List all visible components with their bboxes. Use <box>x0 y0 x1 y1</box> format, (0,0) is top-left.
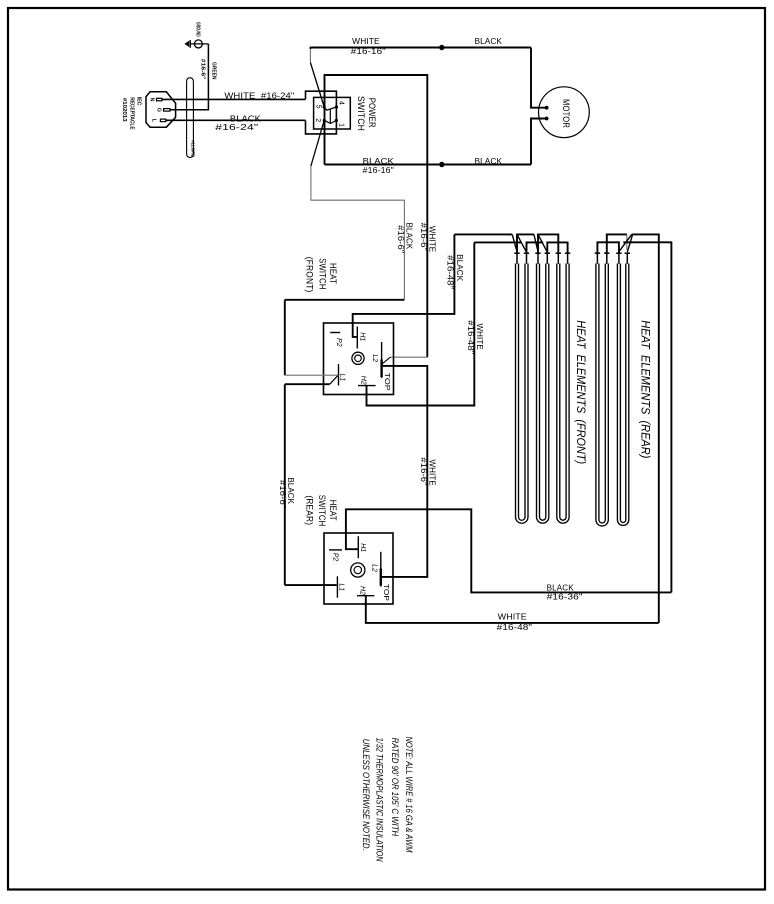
wire to pin 5 <box>310 47 324 107</box>
label heat switch (front) <box>305 257 338 293</box>
wire BLACK #16-24 <box>166 115 306 132</box>
wire jog into front L2 <box>382 357 428 364</box>
svg-text:BLACK: BLACK <box>475 37 503 46</box>
svg-text:HEAT: HEAT <box>328 500 338 521</box>
svg-text:L1: L1 <box>339 374 346 382</box>
svg-text:WHITE #16-24": WHITE #16-24" <box>224 91 294 100</box>
wire WHITE #16-16 (top) <box>310 37 531 56</box>
svg-text:1/32 THERMOPLASTIC INSULATION: 1/32 THERMOPLASTIC INSULATION <box>374 738 384 862</box>
svg-text:#16-6": #16-6" <box>419 223 428 251</box>
svg-text:#102013: #102013 <box>121 98 127 122</box>
wire front L1 gray spur <box>285 374 339 376</box>
svg-text:#16-16": #16-16" <box>351 47 386 56</box>
svg-text:(FRONT): (FRONT) <box>305 257 315 293</box>
svg-text:#16-48": #16-48" <box>497 623 532 632</box>
svg-text:WHITE: WHITE <box>352 37 380 46</box>
svg-text:#16-6": #16-6" <box>419 457 428 485</box>
ground symbol <box>184 22 208 48</box>
wire rear H2 / WHITE #16-48 (bottom) <box>366 596 659 632</box>
wire to L1 risers <box>285 300 405 375</box>
note text <box>361 737 414 862</box>
svg-text:GREEN: GREEN <box>210 62 216 79</box>
svg-text:4: 4 <box>338 101 345 105</box>
motor M1 <box>539 87 590 138</box>
power switch S1 <box>306 91 377 134</box>
svg-text:SWITCH: SWITCH <box>317 258 327 290</box>
heat elements (rear) terminals <box>595 253 630 264</box>
wire front H2 out / WHITE #16-48 <box>367 242 485 405</box>
wire rear H1 / BLACK #16-36 <box>346 509 672 601</box>
svg-text:#16-48": #16-48" <box>466 320 475 354</box>
IEC receptacle #102013 <box>121 92 176 130</box>
svg-text:UNLESS OTHERWISE NOTED.: UNLESS OTHERWISE NOTED. <box>361 739 371 851</box>
heat elements (front) bus wiring <box>454 234 567 253</box>
svg-text:GROUND: GROUND <box>194 22 200 37</box>
heat element loop F2 <box>537 264 549 524</box>
wire WHITE #16-24 <box>162 91 306 100</box>
heat element loop F1 <box>516 264 529 524</box>
svg-text:#16-24": #16-24" <box>215 123 258 132</box>
svg-text:HEAT ELEMENTS (REAR): HEAT ELEMENTS (REAR) <box>638 320 652 458</box>
svg-text:MOTOR: MOTOR <box>561 99 571 128</box>
wire WHITE #16-6 (upper riser) <box>419 165 437 358</box>
label heat switch (rear) <box>304 495 338 527</box>
svg-text:BLACK: BLACK <box>547 583 575 592</box>
svg-text:2: 2 <box>314 118 321 122</box>
wire motor leads <box>531 48 547 165</box>
svg-text:L1: L1 <box>338 583 345 591</box>
svg-text:HEAT: HEAT <box>328 263 338 284</box>
wire loop around power switch <box>325 75 428 165</box>
svg-text:H1: H1 <box>359 543 366 552</box>
wire front L2 out / WHITE #16-6 to rear L2 <box>381 366 437 577</box>
svg-text:WHITE: WHITE <box>475 324 484 351</box>
wire H1 feed (front, BLACK #16-48) <box>353 234 465 337</box>
svg-text:WHITE: WHITE <box>498 613 527 622</box>
svg-text:#16-16": #16-16" <box>363 166 394 175</box>
svg-text:5: 5 <box>314 105 321 109</box>
svg-text:#16-6": #16-6" <box>396 225 405 253</box>
heat element loop F3 <box>557 264 569 524</box>
wire GREEN #16-6 (ground) <box>170 44 216 110</box>
svg-text:NOTE: ALL WIRE # 16 GA & AWM: NOTE: ALL WIRE # 16 GA & AWM <box>404 737 414 853</box>
svg-text:#16-48": #16-48" <box>446 255 455 289</box>
heat element loop R1 <box>596 264 608 526</box>
wire BLACK #16-16 (bottom) <box>325 157 532 175</box>
svg-text:(REAR): (REAR) <box>304 495 314 525</box>
svg-text:RATED 90' OR 105' C WITH: RATED 90' OR 105' C WITH <box>390 738 400 837</box>
svg-text:P2: P2 <box>335 338 342 347</box>
cord bushing #11.50TD <box>187 78 196 158</box>
svg-text:G: G <box>155 108 161 112</box>
wire from pin 2 (BLACK feed) <box>311 120 324 166</box>
svg-text:L2: L2 <box>371 564 378 572</box>
svg-text:WHITE: WHITE <box>428 226 437 253</box>
svg-text:BLACK: BLACK <box>455 254 464 281</box>
svg-text:TOP: TOP <box>382 584 389 601</box>
wire BLACK #16-6 down to rear L1 <box>278 384 337 585</box>
svg-text:BLACK: BLACK <box>475 157 503 166</box>
svg-text:TOP: TOP <box>383 373 390 392</box>
svg-text:H1: H1 <box>358 332 365 341</box>
svg-text:#16-36": #16-36" <box>547 592 583 601</box>
svg-text:SWITCH: SWITCH <box>317 495 327 527</box>
junction (bottom splice) <box>439 162 444 167</box>
heat switch (front) <box>324 323 394 395</box>
wire front L1 black + dogleg <box>285 376 338 384</box>
svg-text:N: N <box>149 98 155 102</box>
svg-text:POWER: POWER <box>367 98 377 128</box>
svg-text:#16-6": #16-6" <box>199 59 205 80</box>
wire gray distribution path <box>311 166 405 300</box>
svg-text:1: 1 <box>337 123 344 127</box>
svg-text:#11.50TD: #11.50TD <box>189 141 195 158</box>
svg-text:H2: H2 <box>360 376 367 385</box>
svg-text:SWITCH: SWITCH <box>356 96 366 131</box>
svg-text:RECEPTACLE: RECEPTACLE <box>128 97 134 130</box>
wire BLACK #16-6 labels (gray riser) <box>396 223 413 254</box>
svg-text:IEC: IEC <box>136 97 142 106</box>
svg-text:L2: L2 <box>371 354 378 362</box>
svg-text:#16-6": #16-6" <box>278 480 287 508</box>
heat elements (front) terminals <box>514 253 570 264</box>
svg-text:HEAT ELEMENTS (FRONT): HEAT ELEMENTS (FRONT) <box>574 320 588 464</box>
heat elements (rear) bus wiring <box>597 234 671 623</box>
svg-text:P2: P2 <box>331 553 338 562</box>
heat switch (rear) <box>324 533 393 604</box>
svg-text:BLACK: BLACK <box>363 157 395 166</box>
svg-text:H2: H2 <box>359 586 366 595</box>
junction (top splice) <box>439 45 444 50</box>
heat element loop R2 <box>617 264 628 526</box>
